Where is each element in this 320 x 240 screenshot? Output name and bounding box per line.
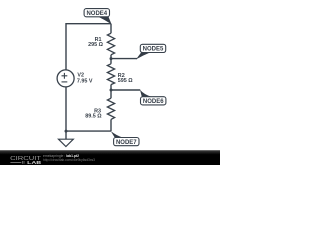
resistor R2 [107, 59, 114, 90]
svg-text:V2: V2 [77, 72, 84, 78]
node junction R2/R3 [110, 89, 113, 92]
wire node5 stub [111, 58, 137, 60]
node junction ground [65, 130, 68, 133]
svg-text:LAB: LAB [27, 160, 41, 165]
svg-text:89.5 Ω: 89.5 Ω [85, 114, 102, 120]
circuitlab logo row LAB [10, 160, 41, 165]
svg-text:295 Ω: 295 Ω [88, 42, 103, 48]
node flag NODE6 [140, 90, 166, 105]
svg-text:NODE5: NODE5 [143, 47, 164, 53]
node flag NODE5 [136, 44, 166, 59]
wire left vertical lower + bottom horizontal [66, 87, 111, 131]
node junction R1/R2 [110, 57, 113, 60]
svg-text:NODE6: NODE6 [143, 99, 164, 105]
footer bar [0, 150, 220, 165]
svg-text:7.95 V: 7.95 V [77, 79, 93, 85]
svg-text:595 Ω: 595 Ω [118, 78, 133, 84]
node flag NODE4 [84, 9, 111, 25]
resistor R3 [107, 90, 114, 131]
svg-text:http://circuitlab.com/c6e9ky6s: http://circuitlab.com/c6e9ky6sd3xs3 [43, 158, 95, 162]
svg-text:NODE7: NODE7 [116, 140, 137, 146]
resistor R1 [107, 24, 114, 59]
voltage source V2 [57, 70, 74, 87]
node flag NODE7 [111, 131, 139, 146]
wire top horizontal + left vertical upper [66, 24, 111, 70]
ground [59, 131, 74, 146]
svg-text:NODE4: NODE4 [86, 11, 107, 17]
wire node6 stub [111, 89, 140, 91]
